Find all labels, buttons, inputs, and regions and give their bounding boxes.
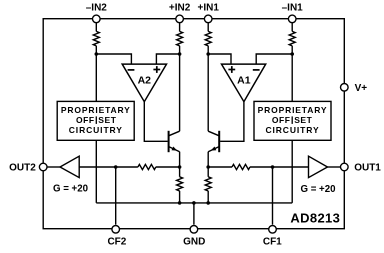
svg-text:PROPRIETARY: PROPRIETARY (61, 105, 131, 115)
pin -IN1 (288, 15, 296, 23)
svg-text:+IN2: +IN2 (169, 2, 191, 13)
wire: +IN1 junction to A1 non-inverting input (208, 54, 231, 64)
wire: bottom rail (96, 202, 292, 204)
wire: output rail channel 1 (Q1 emitter node to resistor) (208, 166, 232, 168)
node: Q2 emitter node (178, 165, 182, 169)
buffer amp G=+20 channel 1 (309, 156, 328, 177)
IC package outline (43, 19, 344, 229)
wire: -IN1 junction to A1 inverting input (256, 54, 292, 64)
svg-text:GND: GND (183, 236, 205, 247)
op-amp A2 (122, 64, 166, 102)
wire: GND tap (193, 203, 195, 225)
pin -IN2 (93, 15, 101, 23)
resistor: +IN1 input resistor (205, 31, 211, 45)
block: proprietary offset circuitry (channel 2) (57, 101, 134, 140)
svg-text:PROPRIETARY: PROPRIETARY (258, 105, 328, 115)
node: -IN1 junction (290, 52, 294, 56)
node: CF2 tap on output rail (114, 165, 118, 169)
svg-text:OFF: OFF (272, 115, 291, 125)
svg-text:AD8213: AD8213 (290, 211, 340, 226)
wire: -IN1 column from junction down to bottom rail (passes under right box) (291, 54, 293, 203)
transistor Q1 (right NPN) (208, 131, 219, 167)
wire: CF2 column (115, 167, 117, 225)
node: -IN2 junction (95, 52, 99, 56)
wire: -IN1 pin stub (291, 22, 293, 31)
pin +IN1 (204, 15, 212, 23)
wire: -IN2 pin stub (95, 22, 97, 31)
resistor: -IN1 input resistor (289, 31, 295, 45)
wire: -IN1 resistor to junction (291, 46, 293, 54)
pin +IN2 (176, 15, 184, 23)
svg-text:SET: SET (294, 115, 312, 125)
op-amp A1 (222, 64, 266, 102)
svg-text:OFF: OFF (76, 115, 95, 125)
wire: -IN2 resistor to junction (95, 46, 97, 54)
pin CF2 (112, 226, 120, 234)
pin GND (190, 226, 198, 234)
resistor: channel 2 gain resistor (vertical) (179, 167, 181, 177)
pin CF1 (269, 226, 277, 234)
wire: resistor to OUT1 buffer input (250, 166, 309, 168)
wire: +IN2 pin stub (179, 22, 181, 31)
wire: -IN2 column from junction down to bottom rail (passes under left box) (95, 54, 97, 203)
node: +IN2 junction (178, 52, 182, 56)
svg-text:–IN1: –IN1 (282, 2, 304, 13)
svg-text:G = +20: G = +20 (300, 184, 335, 195)
svg-text:OUT1: OUT1 (354, 163, 381, 174)
wire: +IN2 junction to A2 non-inverting input (156, 54, 179, 64)
resistor: channel 1 gain resistor (vertical) (207, 167, 209, 177)
svg-text:G = +20: G = +20 (53, 184, 88, 195)
svg-text:CF2: CF2 (107, 236, 126, 247)
resistor: +IN2 input resistor (177, 31, 183, 45)
wire: A1 output to Q1 base (220, 102, 244, 142)
wire: -IN2 junction to A2 inverting input (96, 54, 131, 64)
block: proprietary offset circuitry (channel 1) (254, 101, 331, 140)
node: Q1 emitter node (206, 165, 210, 169)
resistor: -IN2 input resistor (93, 31, 99, 45)
wire: output rail channel 2 (buffer input) (79, 166, 138, 168)
svg-text:OUT2: OUT2 (9, 163, 36, 174)
wire: CF1 column (272, 167, 274, 225)
node: gain resistor 2 bottom (178, 201, 182, 205)
wire: OUT1 buffer output to pin (328, 166, 341, 168)
svg-text:+IN1: +IN1 (197, 2, 219, 13)
wire: OUT2 buffer output to pin (48, 166, 61, 168)
svg-text:CF1: CF1 (263, 236, 282, 247)
resistor: channel 2 series resistor (138, 164, 156, 169)
buffer amp G=+20 channel 2 (60, 156, 79, 177)
node: gain resistor 1 bottom (206, 201, 210, 205)
wire: resistor to Q2 emitter node (156, 166, 180, 168)
node: GND tap (192, 201, 196, 205)
svg-text:V+: V+ (355, 83, 368, 94)
svg-text:SET: SET (98, 115, 116, 125)
node: CF1 tap on output rail (271, 165, 275, 169)
wire: A2 output to Q2 base (144, 102, 167, 142)
node: +IN1 junction (206, 52, 210, 56)
pin OUT1 (341, 163, 349, 171)
transistor Q2 (left NPN) (169, 131, 180, 167)
svg-text:–IN2: –IN2 (86, 2, 108, 13)
svg-text:A1: A1 (237, 75, 251, 87)
pin V+ (341, 84, 349, 92)
wire: +IN2 column from resistor to Q2 collector (179, 46, 181, 131)
pin circles (39, 15, 348, 233)
svg-text:CIRCUITRY: CIRCUITRY (265, 125, 319, 135)
wire: +IN1 pin stub (207, 22, 209, 31)
svg-text:A2: A2 (138, 75, 152, 87)
wire: +IN1 column from resistor to Q1 collector (207, 46, 209, 131)
pin OUT2 (39, 163, 47, 171)
resistor: channel 1 series resistor (232, 164, 250, 169)
svg-text:CIRCUITRY: CIRCUITRY (69, 125, 123, 135)
